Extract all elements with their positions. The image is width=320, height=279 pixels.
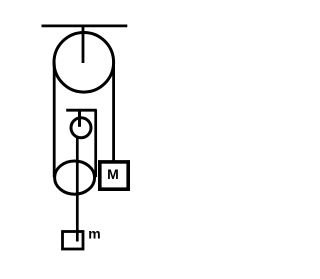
svg-text:M: M [107, 166, 119, 182]
svg-text:m: m [88, 226, 100, 242]
